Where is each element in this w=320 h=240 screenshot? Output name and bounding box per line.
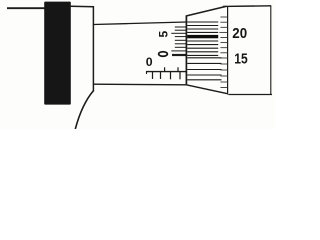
thimble bottom taper (186, 85, 227, 94)
ratchet right (270, 6, 272, 95)
sleeve top edge (93, 22, 186, 25)
vernier thick row (172, 54, 186, 56)
ratchet bottom (228, 94, 272, 96)
frame curve (75, 91, 93, 130)
workpiece black block (44, 2, 71, 105)
datum start hook (146, 72, 148, 74)
thimble edge at sleeve (185, 16, 187, 85)
main scale ticks above datum (165, 67, 178, 71)
spindle line (left arm of frame) (7, 7, 45, 9)
main scale ticks below datum (153, 72, 181, 80)
vernier label 0 (rotated oval) (159, 52, 168, 57)
sleeve bottom edge (93, 83, 186, 86)
svg-text:20: 20 (232, 26, 247, 42)
svg-text:5: 5 (157, 31, 171, 38)
thimble thick band (187, 35, 218, 38)
ratchet top (223, 5, 271, 8)
svg-text:15: 15 (234, 51, 247, 67)
top line right of block (71, 5, 94, 8)
thimble bevel edge (227, 7, 229, 95)
thimble graduations upper (187, 22, 218, 55)
svg-text:0: 0 (146, 55, 153, 69)
thimble top taper (186, 6, 226, 16)
bevel ticks (219, 17, 227, 88)
vernier tick rows on sleeve (171, 27, 186, 51)
thimble graduations lower (187, 58, 221, 80)
datum line (146, 71, 186, 73)
barrel left vertical (92, 6, 94, 91)
